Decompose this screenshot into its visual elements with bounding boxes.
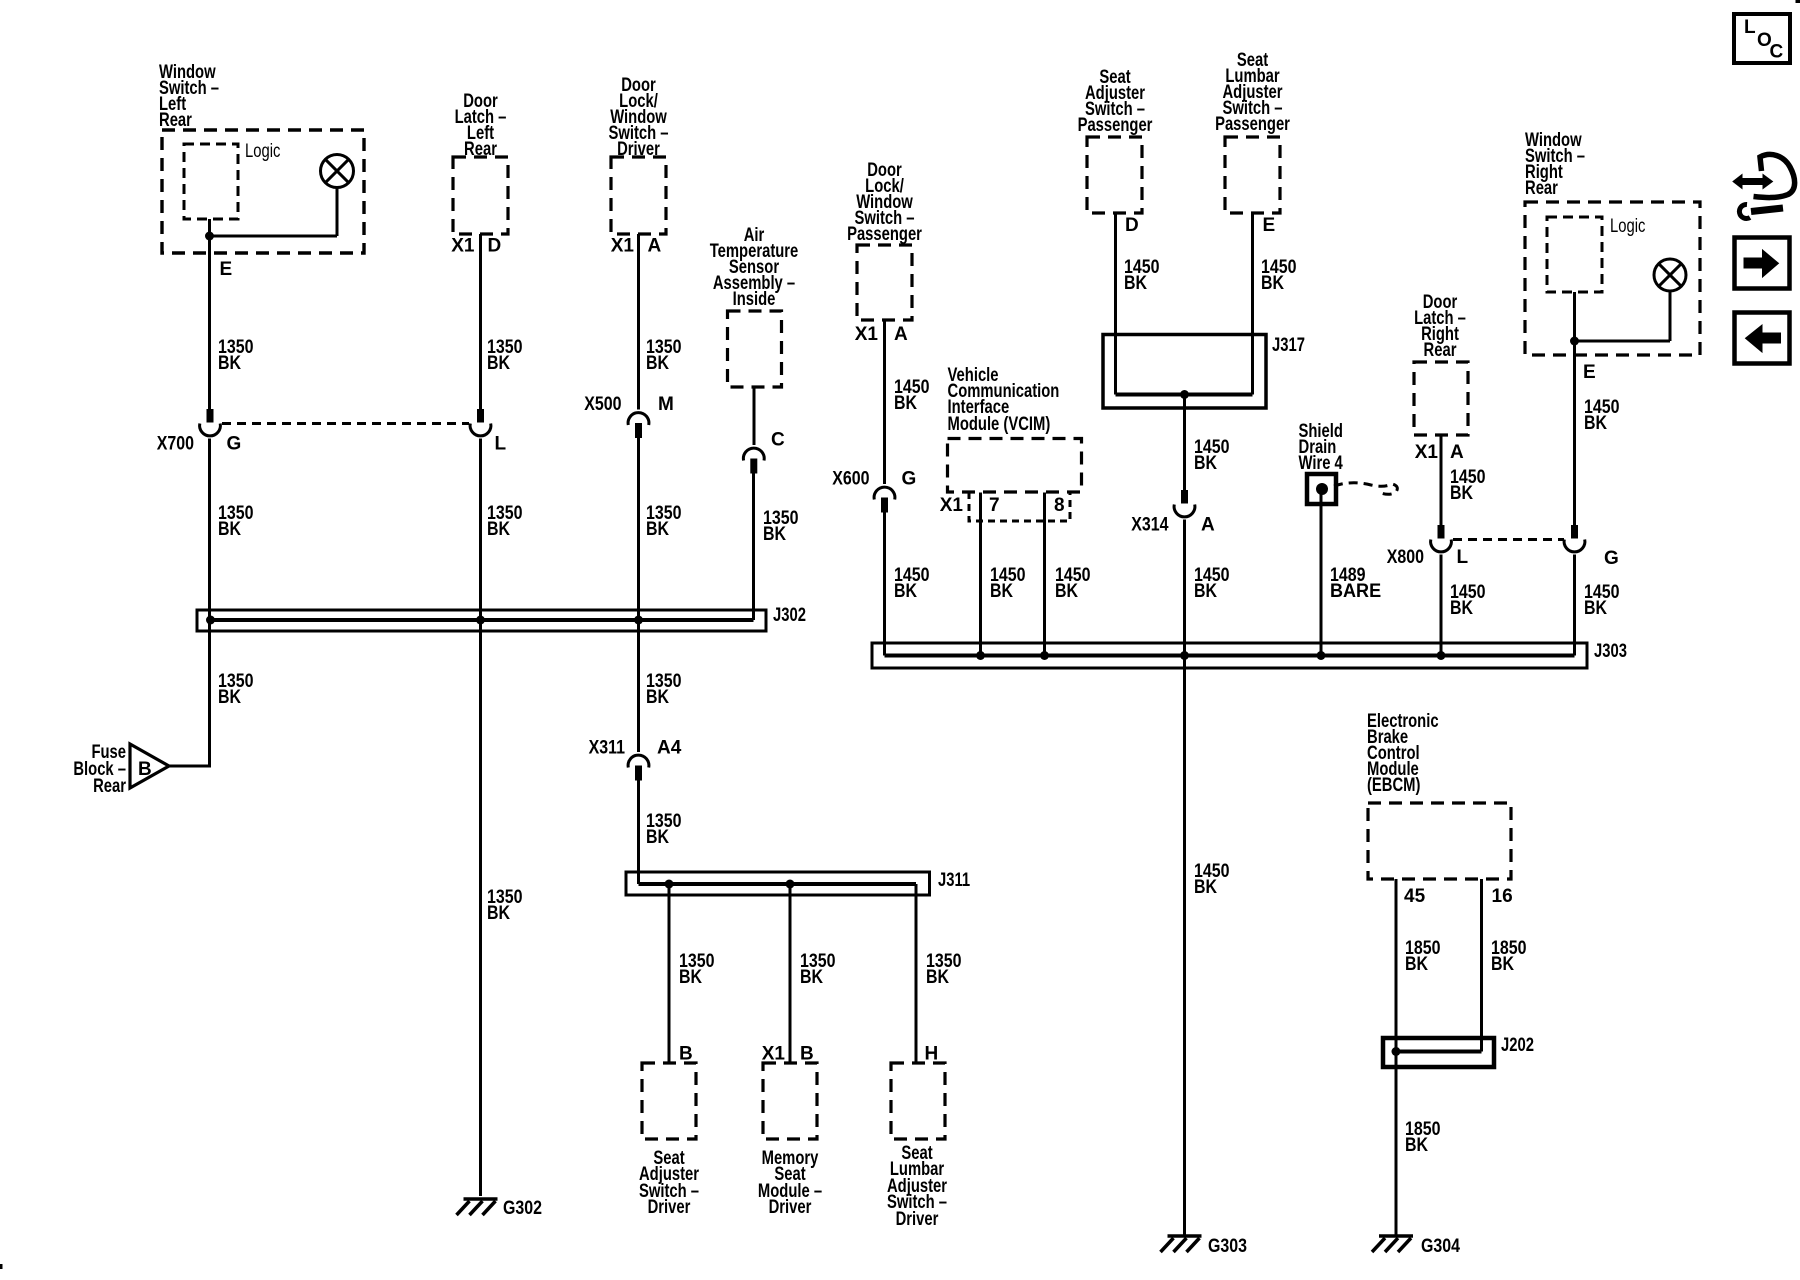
splice pack J311 xyxy=(626,872,930,895)
svg-text:BK: BK xyxy=(763,523,786,545)
svg-text:E: E xyxy=(1583,362,1596,383)
svg-text:BK: BK xyxy=(1194,876,1217,898)
svg-text:X1: X1 xyxy=(451,236,475,257)
svg-text:G: G xyxy=(902,469,917,490)
svg-text:BK: BK xyxy=(1491,953,1514,975)
wire J202 to G304 xyxy=(1395,1052,1398,1237)
junction dot J302/X700 wire xyxy=(206,616,215,625)
svg-text:Module (VCIM): Module (VCIM) xyxy=(948,413,1051,434)
wire logic output to junction (right) xyxy=(1573,292,1576,341)
svg-text:B: B xyxy=(138,759,152,780)
svg-text:BK: BK xyxy=(894,392,917,414)
wire C to J302 right end xyxy=(752,474,755,621)
svg-text:Logic: Logic xyxy=(1610,215,1646,236)
svg-text:Passenger: Passenger xyxy=(1215,113,1290,134)
junction dot (Window Switch - Right Rear) xyxy=(1570,337,1579,346)
svg-text:BK: BK xyxy=(218,352,241,374)
junction dot J317 xyxy=(1180,390,1189,399)
wire X800 to J303 xyxy=(1440,555,1443,656)
connector terminal G (right) xyxy=(1571,525,1578,539)
svg-text:Driver: Driver xyxy=(648,1196,691,1217)
wire G connector to J303 right end xyxy=(1573,555,1576,656)
svg-text:A: A xyxy=(1450,442,1464,463)
logic block (Window Switch - Right Rear) xyxy=(1547,217,1602,292)
svg-text:E: E xyxy=(1263,215,1276,236)
svg-text:BK: BK xyxy=(218,686,241,708)
junction dot J303/VCIM pin7 xyxy=(976,651,985,660)
svg-text:45: 45 xyxy=(1404,886,1426,907)
wire X311 to J311 xyxy=(637,781,640,885)
connector X700 terminal G xyxy=(207,409,214,423)
svg-text:BARE: BARE xyxy=(1330,580,1381,602)
connector X600 terminal G xyxy=(874,487,895,499)
svg-text:B: B xyxy=(800,1044,814,1065)
svg-text:Wire 4: Wire 4 xyxy=(1299,452,1344,473)
svg-text:BK: BK xyxy=(1194,452,1217,474)
wire logic output to junction xyxy=(208,219,211,236)
svg-text:L: L xyxy=(495,434,507,455)
component Seat Lumbar Adjuster Switch - Driver (outline) xyxy=(891,1063,945,1139)
svg-text:BK: BK xyxy=(1584,412,1607,434)
svg-text:BK: BK xyxy=(1194,580,1217,602)
forward arrow box xyxy=(1735,238,1790,289)
connector X800 terminal L xyxy=(1438,525,1445,539)
svg-text:C: C xyxy=(1770,42,1784,63)
junction dot J302/L wire xyxy=(476,616,485,625)
splice pack J317 xyxy=(1103,335,1266,409)
wire L to J302 and down to G302 xyxy=(479,439,482,1197)
wire shield drain to J303 xyxy=(1320,494,1323,656)
svg-text:X800: X800 xyxy=(1387,546,1424,568)
wire J311 to Memory Seat Module - Driver xyxy=(789,884,792,1063)
junction dot J303/shield drain xyxy=(1317,651,1326,660)
svg-text:BK: BK xyxy=(800,966,823,988)
component Seat Lumbar Adjuster Switch - Passenger (outline) xyxy=(1225,137,1280,213)
wire terminal E down to connector G (right) xyxy=(1573,341,1576,525)
svg-text:X700: X700 xyxy=(157,432,194,454)
wire EBCM pin 16 to J202 xyxy=(1480,879,1483,1052)
wire Door Latch terminal D to connector L xyxy=(479,234,482,409)
connector terminal L xyxy=(477,409,484,423)
VCIM connector pin block xyxy=(969,492,1070,521)
LOC reference box xyxy=(1734,14,1790,63)
svg-text:BK: BK xyxy=(1450,482,1473,504)
wire X600 to J303 xyxy=(883,513,886,656)
svg-text:Rear: Rear xyxy=(1525,177,1558,198)
connector X311 terminal A4 xyxy=(628,755,649,767)
fuse block triangle terminal B xyxy=(130,744,169,788)
svg-text:E: E xyxy=(220,259,233,280)
wire terminal E down to X700 xyxy=(208,236,211,409)
component Door Lock/Window Switch - Passenger (outline) xyxy=(857,245,912,320)
svg-text:(EBCM): (EBCM) xyxy=(1367,774,1420,795)
splice pack J302 xyxy=(197,610,766,631)
svg-text:J303: J303 xyxy=(1594,640,1627,661)
component Seat Adjuster Switch - Driver (outline) xyxy=(642,1063,696,1139)
svg-text:Rear: Rear xyxy=(1424,339,1457,360)
connector X314 terminal A xyxy=(1181,490,1188,504)
svg-text:Passenger: Passenger xyxy=(847,223,922,244)
svg-text:J202: J202 xyxy=(1501,1034,1534,1055)
svg-text:A: A xyxy=(894,324,908,345)
svg-text:BK: BK xyxy=(679,966,702,988)
component Seat Adjuster Switch - Passenger (outline) xyxy=(1087,137,1142,213)
svg-text:A: A xyxy=(648,236,662,257)
wire sensor to connector C xyxy=(753,387,756,445)
back arrow box xyxy=(1735,313,1790,364)
svg-text:L: L xyxy=(1457,547,1469,568)
svg-text:Driver: Driver xyxy=(896,1208,939,1229)
svg-text:X500: X500 xyxy=(584,393,621,415)
ground G304 xyxy=(1379,1234,1413,1238)
svg-text:G303: G303 xyxy=(1208,1235,1247,1257)
component Window Switch - Left Rear (outline) xyxy=(162,130,364,253)
component Air Temperature Sensor Assembly - Inside (outline) xyxy=(728,311,782,387)
svg-text:8: 8 xyxy=(1054,495,1065,516)
svg-text:X1: X1 xyxy=(611,236,635,257)
component Door Lock/Window Switch - Driver (outline) xyxy=(611,157,666,234)
wire junction to lamp xyxy=(210,235,338,238)
wire VCIM pin 7 to J303 xyxy=(979,493,982,656)
wire VCIM pin 8 to J303 xyxy=(1043,493,1046,656)
connector terminal C xyxy=(743,448,764,460)
svg-text:X314: X314 xyxy=(1131,513,1168,535)
svg-text:BK: BK xyxy=(990,580,1013,602)
connector X500 terminal M xyxy=(628,413,649,425)
junction dot J311 second branch xyxy=(786,880,795,889)
svg-text:J317: J317 xyxy=(1272,334,1305,355)
svg-text:BK: BK xyxy=(1405,953,1428,975)
dashed connector line X800 to G xyxy=(1453,538,1564,541)
junction dot J202 xyxy=(1392,1047,1401,1056)
svg-text:BK: BK xyxy=(1261,272,1284,294)
svg-text:Rear: Rear xyxy=(93,775,126,796)
wire X700 to J302 xyxy=(208,439,211,621)
svg-text:BK: BK xyxy=(1450,597,1473,619)
ground G303 xyxy=(1168,1234,1202,1238)
shield drain pigtail (dashed) xyxy=(1334,483,1397,495)
svg-text:BK: BK xyxy=(1584,597,1607,619)
svg-text:BK: BK xyxy=(894,580,917,602)
svg-text:BK: BK xyxy=(646,686,669,708)
svg-text:BK: BK xyxy=(487,352,510,374)
svg-text:X311: X311 xyxy=(589,736,626,758)
svg-text:A4: A4 xyxy=(657,738,682,759)
svg-text:BK: BK xyxy=(646,826,669,848)
page artifact bottom-left xyxy=(0,1264,3,1269)
page artifact top-right xyxy=(1796,0,1800,3)
wire J317 to X314 xyxy=(1183,395,1186,491)
wire junction to lamp (right) xyxy=(1575,340,1671,343)
indicator lamp (Window Switch - Right Rear) xyxy=(1654,259,1686,291)
component Door Latch - Right Rear (outline) xyxy=(1414,362,1468,435)
svg-text:16: 16 xyxy=(1492,886,1513,907)
svg-text:Rear: Rear xyxy=(159,109,192,130)
shield drain dot xyxy=(1316,483,1328,495)
wire Seat Lumbar E to J317 xyxy=(1251,213,1254,395)
junction dot J303/VCIM pin8 xyxy=(1040,651,1049,660)
splice pack J303 xyxy=(872,643,1587,668)
component Memory Seat Module - Driver (outline) xyxy=(763,1063,817,1139)
svg-text:G: G xyxy=(227,434,242,455)
wire J311 to Seat Lumbar Adjuster Switch - Driver xyxy=(915,884,918,1063)
svg-text:J302: J302 xyxy=(773,604,806,625)
splice pack J202 xyxy=(1383,1038,1494,1067)
component EBCM (outline) xyxy=(1368,803,1511,879)
svg-text:A: A xyxy=(1201,515,1215,536)
svg-text:BK: BK xyxy=(646,352,669,374)
svg-text:Logic: Logic xyxy=(245,140,281,161)
svg-text:D: D xyxy=(488,236,502,257)
svg-text:X1: X1 xyxy=(940,495,964,516)
svg-text:D: D xyxy=(1125,215,1139,236)
svg-text:X1: X1 xyxy=(762,1044,786,1065)
wire X500 to J302 to X311 xyxy=(637,438,640,752)
wire J311 to Seat Adjuster Switch - Driver xyxy=(668,884,671,1063)
wire Seat Adjuster D to J317 xyxy=(1114,213,1117,395)
wire Passenger switch to X600 xyxy=(883,320,886,484)
ground G302 xyxy=(464,1197,498,1201)
svg-text:B: B xyxy=(679,1044,693,1065)
svg-text:BK: BK xyxy=(1124,272,1147,294)
component Window Switch - Right Rear (outline) xyxy=(1525,202,1700,355)
svg-text:C: C xyxy=(771,430,785,451)
junction dot (Window Switch - Left Rear) xyxy=(205,232,214,241)
svg-text:G304: G304 xyxy=(1421,1235,1460,1257)
wire X314 to J303 and down to G303 xyxy=(1183,520,1186,1237)
svg-text:M: M xyxy=(658,394,674,415)
svg-text:BK: BK xyxy=(926,966,949,988)
svg-text:BK: BK xyxy=(487,902,510,924)
wire EBCM pin 45 to J202 xyxy=(1395,879,1398,1052)
svg-text:G302: G302 xyxy=(503,1197,542,1219)
svg-text:Driver: Driver xyxy=(769,1196,812,1217)
junction dot J303/X314 wire xyxy=(1180,651,1189,660)
junction dot J302/X500 wire xyxy=(634,616,643,625)
svg-text:X1: X1 xyxy=(855,324,879,345)
svg-text:X600: X600 xyxy=(832,467,869,489)
svg-text:X1: X1 xyxy=(1415,442,1439,463)
junction dot J311 first branch xyxy=(665,880,674,889)
svg-text:7: 7 xyxy=(989,495,1000,516)
svg-text:Inside: Inside xyxy=(733,288,776,309)
svg-text:BK: BK xyxy=(218,518,241,540)
wire Door Latch A to X800 xyxy=(1440,435,1443,525)
svg-text:BK: BK xyxy=(646,518,669,540)
wire Driver switch terminal A to X500 xyxy=(637,234,640,410)
svg-text:Passenger: Passenger xyxy=(1078,114,1153,135)
svg-text:H: H xyxy=(925,1044,939,1065)
svg-text:BK: BK xyxy=(1055,580,1078,602)
wire fuse block horizontal xyxy=(168,765,211,768)
logic block (Window Switch - Left Rear) xyxy=(184,144,238,219)
wire J302 to Fuse Block xyxy=(208,620,211,766)
dashed connector line X700 to L xyxy=(222,422,469,425)
svg-text:BK: BK xyxy=(487,518,510,540)
diagnostic tools icon (arrows and wrench) xyxy=(1733,175,1773,189)
component VCIM (outline) xyxy=(948,439,1082,493)
svg-text:G: G xyxy=(1604,548,1619,569)
svg-text:BK: BK xyxy=(1405,1134,1428,1156)
component Door Latch - Left Rear (outline) xyxy=(453,157,508,234)
junction dot J303/X800 wire xyxy=(1437,651,1446,660)
svg-text:J311: J311 xyxy=(938,869,970,890)
shield drain wire box xyxy=(1307,474,1336,504)
svg-text:L: L xyxy=(1744,17,1756,38)
indicator lamp (Window Switch - Left Rear) xyxy=(321,155,354,188)
